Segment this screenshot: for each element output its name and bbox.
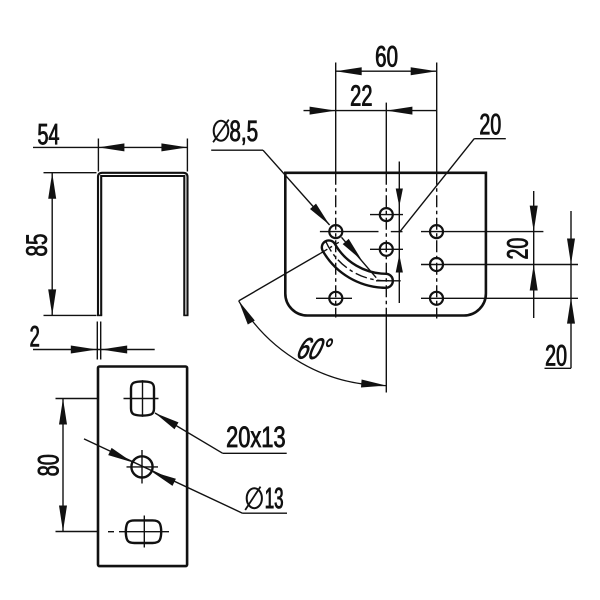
hole mid-top Ø8,5 xyxy=(380,208,393,221)
dimension 85 extension lines xyxy=(44,172,97,174)
dimension 80 extension lines xyxy=(56,398,98,400)
curved slot (width 8,5) xyxy=(322,240,393,287)
dimension 2 extension lines xyxy=(96,322,98,360)
60deg angle ray xyxy=(239,253,321,301)
dimension 80 arrows xyxy=(59,399,67,425)
U-channel wall bottom caps xyxy=(97,314,102,316)
right dimension 20 (second) arrows xyxy=(567,239,575,265)
U-channel outer contour xyxy=(98,173,188,316)
hole right-bottom Ø8,5 xyxy=(430,292,443,305)
dimension 22 text xyxy=(351,85,371,106)
left column centerline / extension xyxy=(335,63,337,173)
plate outline (top-right view) xyxy=(285,173,486,316)
hole Ø13 xyxy=(131,456,152,477)
label Ø8,5 underline and leader xyxy=(211,149,263,151)
U-channel inner contour xyxy=(101,176,184,315)
label Ø8,5 diameter symbol xyxy=(214,121,229,141)
slot 20x13 (vertical, top) xyxy=(131,381,154,415)
middle column centerline / extension xyxy=(385,103,387,173)
bottom plate outline xyxy=(98,367,187,567)
curved slot arc centerline (dash-dot) xyxy=(326,241,391,281)
hole mid-lower Ø8,5 xyxy=(380,243,393,256)
dimension 85 arrows xyxy=(48,173,56,199)
dimension 60 arrows xyxy=(336,67,362,75)
right dimension 20 (second) line xyxy=(570,211,572,368)
right dimension 20 (first) text xyxy=(507,239,528,259)
60deg text xyxy=(296,338,333,360)
label 20x13 arrow xyxy=(155,413,179,429)
row centerline right-top hole xyxy=(421,231,543,233)
60deg angle arc xyxy=(239,301,387,386)
label Ø13 underline and leader xyxy=(243,512,288,514)
label Ø8,5 text xyxy=(230,120,257,144)
hole right-middle Ø8,5 xyxy=(430,258,443,271)
dimension 54 line xyxy=(33,146,187,148)
hole left-bottom Ø8,5 xyxy=(329,292,342,305)
dimension 2 line xyxy=(33,349,155,351)
dimension 22 line xyxy=(304,110,438,112)
label 20 underline and leader xyxy=(474,138,506,140)
right dimension 20 (second) text + underline xyxy=(546,345,566,366)
dimension 54 text xyxy=(38,124,59,145)
dimension 80 line xyxy=(62,399,64,532)
dimension 85 text xyxy=(26,234,47,255)
label 20x13 underline and leader xyxy=(223,452,287,454)
label Ø13 arrows at hole xyxy=(108,448,132,462)
row centerline bottom holes xyxy=(316,297,352,299)
row centerline right-middle hole xyxy=(421,264,578,266)
hole Ø13 centerlines xyxy=(127,466,159,468)
hole right-top Ø8,5 xyxy=(430,225,443,238)
dimension 80 text xyxy=(38,455,59,475)
60deg angle arc arrows xyxy=(239,301,255,325)
right dimension 20 (first) arrows xyxy=(530,206,538,232)
slot end centerline xyxy=(376,280,401,282)
dimension 60 line xyxy=(336,70,437,72)
row centerline mid-top hole xyxy=(370,214,403,216)
row centerline top-left hole xyxy=(320,231,379,233)
label 20 (top right) text xyxy=(480,114,500,135)
Ø8,5 arrow at hole xyxy=(310,204,330,225)
label 20x13 text xyxy=(227,426,284,447)
row centerline mid-lower hole xyxy=(370,248,403,250)
dimension 2 text xyxy=(31,326,39,347)
Ø8,5 second leader to slot xyxy=(342,237,377,277)
dimension 2 arrows xyxy=(71,346,97,354)
right dimension 20 (first) line xyxy=(533,191,535,318)
mini dimension 20 arrows xyxy=(396,189,403,207)
dimension 54 arrows xyxy=(98,143,124,151)
label Ø13 diameter symbol xyxy=(247,488,262,508)
hole left-top Ø8,5 xyxy=(329,225,342,238)
dimension 60 text xyxy=(376,46,397,67)
dimension 85 line xyxy=(51,173,53,316)
dimension 54 extension lines xyxy=(97,139,99,172)
label Ø13 text xyxy=(266,488,283,509)
dimension 22 arrows xyxy=(310,107,336,115)
bottom slot centerlines xyxy=(119,531,169,533)
slot (horizontal, bottom) xyxy=(126,520,161,543)
mini dimension 20 vertical line xyxy=(398,162,400,304)
right column centerline / extension xyxy=(436,63,438,173)
slot 20x13 centerlines xyxy=(124,398,159,400)
